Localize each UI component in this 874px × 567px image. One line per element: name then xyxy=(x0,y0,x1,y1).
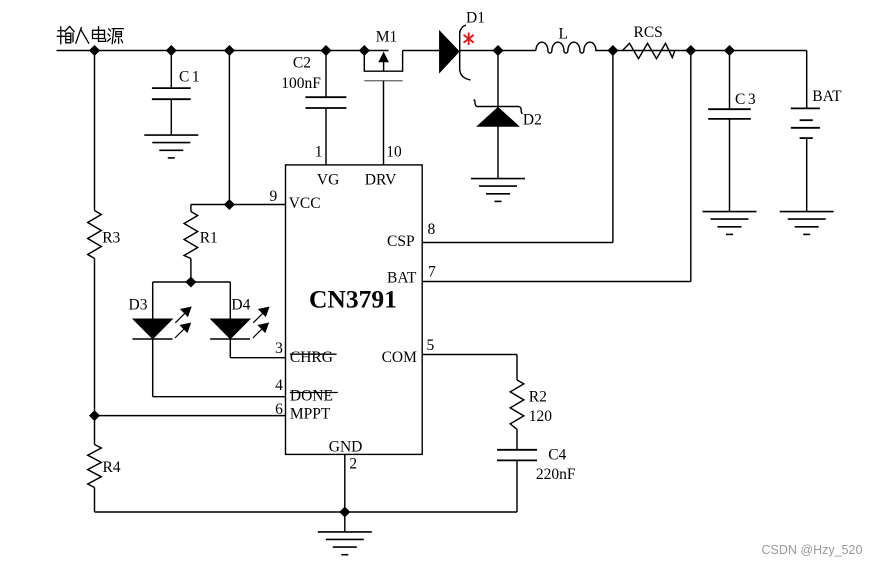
op-amp U1 CN3791 box xyxy=(286,165,423,455)
wire D2 top xyxy=(497,51,499,179)
svg-text:CN3791: CN3791 xyxy=(309,285,397,314)
LED D4 xyxy=(211,319,249,338)
wire D3 anode xyxy=(152,282,154,319)
node GND junction xyxy=(340,508,349,517)
wire GND pin 2 xyxy=(344,454,346,512)
svg-text:4: 4 xyxy=(275,377,283,394)
wire CSP sense vertical xyxy=(612,51,614,243)
wire VCC branch vertical xyxy=(228,51,230,205)
asterisk mark xyxy=(464,33,473,44)
node at D2 xyxy=(494,46,503,55)
wire LED anode rail xyxy=(153,281,231,283)
node at BAT sense xyxy=(686,46,695,55)
wire CSP pin 8 xyxy=(422,242,613,244)
svg-text:R1: R1 xyxy=(200,230,218,247)
ground at GND pin xyxy=(318,532,372,555)
svg-text:L: L xyxy=(559,26,568,43)
wire COM to R2 xyxy=(516,355,518,380)
capacitor C4 xyxy=(497,450,537,461)
wire rail from L to BAT corner xyxy=(596,50,807,52)
wire R3 to MPPT node xyxy=(94,259,96,416)
ground under C1 xyxy=(144,135,198,158)
wire D3 cathode to DONE xyxy=(152,339,154,397)
svg-text:R4: R4 xyxy=(103,459,121,476)
wire GND stem xyxy=(344,512,346,532)
svg-text:3: 3 xyxy=(275,340,283,357)
cathode bar D3 xyxy=(133,338,173,340)
diode D1 xyxy=(440,32,459,72)
svg-text:CSDN @Hzy_520: CSDN @Hzy_520 xyxy=(762,543,863,557)
svg-text:R2: R2 xyxy=(529,389,547,406)
transistor M1 arrow xyxy=(383,61,385,72)
cathode bar D1 xyxy=(459,31,461,71)
light arrows D3 xyxy=(175,307,191,338)
ground under D2 xyxy=(471,179,525,202)
node at M1 source xyxy=(360,46,369,55)
capacitor C3 xyxy=(708,109,751,119)
resistor R3 xyxy=(88,211,102,259)
wire R1 to LED rail xyxy=(190,259,192,283)
svg-text:100nF: 100nF xyxy=(281,75,321,92)
wire COM pin 5 xyxy=(422,354,517,356)
wire rail between M1 and D1 xyxy=(403,50,440,52)
svg-text:10: 10 xyxy=(386,144,402,161)
wire input rail left segment xyxy=(57,50,389,52)
svg-text:M1: M1 xyxy=(376,29,398,46)
node MPPT junction xyxy=(90,411,99,420)
wire C3 top xyxy=(729,51,731,110)
wire C1 to ground xyxy=(170,99,172,135)
wire R2 to C4 xyxy=(516,429,518,450)
wire rail from D1 to L xyxy=(460,50,536,52)
node at CSP sense xyxy=(608,46,617,55)
svg-text:GND: GND xyxy=(329,439,363,456)
wire bottom rail xyxy=(95,511,518,513)
node at VCC branch xyxy=(225,46,234,55)
wire VCC pin 9 xyxy=(191,204,286,206)
svg-text:D1: D1 xyxy=(466,10,485,27)
zener D2 xyxy=(474,100,523,114)
svg-text:BAT: BAT xyxy=(387,270,417,287)
svg-text:1: 1 xyxy=(315,144,323,161)
svg-text:5: 5 xyxy=(427,337,435,354)
svg-text:7: 7 xyxy=(428,264,436,281)
wire MPPT node to R4 xyxy=(94,416,96,445)
wire MPPT pin 6 xyxy=(95,415,286,417)
resistor R1 xyxy=(184,212,198,259)
svg-text:CHRG: CHRG xyxy=(290,349,333,366)
wire C4 to bottom rail xyxy=(516,460,518,512)
wire R4 to bottom rail xyxy=(94,488,96,513)
wire battery to ground xyxy=(806,138,808,212)
svg-text:D2: D2 xyxy=(523,112,542,129)
svg-text:MPPT: MPPT xyxy=(290,406,331,423)
svg-text:R3: R3 xyxy=(102,230,120,247)
svg-text:D3: D3 xyxy=(129,297,148,314)
node VCC junction xyxy=(225,200,234,209)
svg-text:DRV: DRV xyxy=(365,172,397,189)
svg-text:C4: C4 xyxy=(548,447,566,464)
wire DONE pin 4 xyxy=(153,396,286,398)
wire CHRG pin 3 xyxy=(230,357,285,359)
transistor M1 channel loop xyxy=(364,51,402,72)
svg-text:C1: C1 xyxy=(179,69,202,86)
resistor RCS xyxy=(623,43,675,58)
wire C1 top xyxy=(170,51,172,89)
node at C1 xyxy=(167,46,176,55)
wire BAT sense vertical xyxy=(690,51,692,282)
node input at R3 xyxy=(90,46,99,55)
wire rail corner to battery xyxy=(806,51,808,109)
transistor M1 gate bar xyxy=(364,80,402,82)
light arrows D4 xyxy=(253,307,269,338)
overline CHRG xyxy=(290,353,337,355)
resistor R2 xyxy=(510,380,524,429)
svg-text:D4: D4 xyxy=(231,297,250,314)
svg-text:BAT: BAT xyxy=(812,88,842,105)
battery BAT xyxy=(791,108,820,138)
svg-text:VCC: VCC xyxy=(289,195,321,212)
capacitor C2 xyxy=(305,97,346,108)
svg-text:6: 6 xyxy=(275,401,283,418)
node LED junction xyxy=(186,278,195,287)
node at C3 xyxy=(725,46,734,55)
overline DONE xyxy=(290,392,338,394)
svg-text:RCS: RCS xyxy=(634,24,663,41)
ground under battery xyxy=(780,212,834,235)
wire C2 top xyxy=(325,51,327,98)
label 输入电源 xyxy=(57,27,123,45)
wire R1 top corner xyxy=(190,205,192,212)
wire R3 top xyxy=(94,51,96,211)
ground under C3 xyxy=(703,212,757,235)
node at C2 xyxy=(322,46,331,55)
wire BAT pin 7 xyxy=(422,281,691,283)
svg-text:8: 8 xyxy=(428,221,436,238)
cathode bar D4 xyxy=(210,338,250,340)
wire D4 cathode to CHRG xyxy=(229,339,231,358)
svg-text:COM: COM xyxy=(382,349,418,366)
wire M1 gate to DRV pin 10 xyxy=(383,81,385,165)
LED D3 xyxy=(134,319,172,338)
svg-text:120: 120 xyxy=(529,408,553,425)
svg-text:DONE: DONE xyxy=(290,388,333,405)
svg-text:CSP: CSP xyxy=(387,233,415,250)
svg-text:C3: C3 xyxy=(735,91,758,108)
wire D4 anode xyxy=(229,282,231,319)
svg-text:220nF: 220nF xyxy=(536,466,576,483)
wire C3 to ground xyxy=(729,119,731,212)
svg-text:VG: VG xyxy=(317,172,339,189)
capacitor C1 xyxy=(152,88,191,99)
resistor R4 xyxy=(88,445,102,488)
svg-text:9: 9 xyxy=(270,188,278,205)
wire C2 to VG pin 1 xyxy=(325,108,327,165)
inductor L xyxy=(536,42,596,53)
svg-text:C2: C2 xyxy=(293,55,311,72)
svg-text:2: 2 xyxy=(349,456,357,473)
